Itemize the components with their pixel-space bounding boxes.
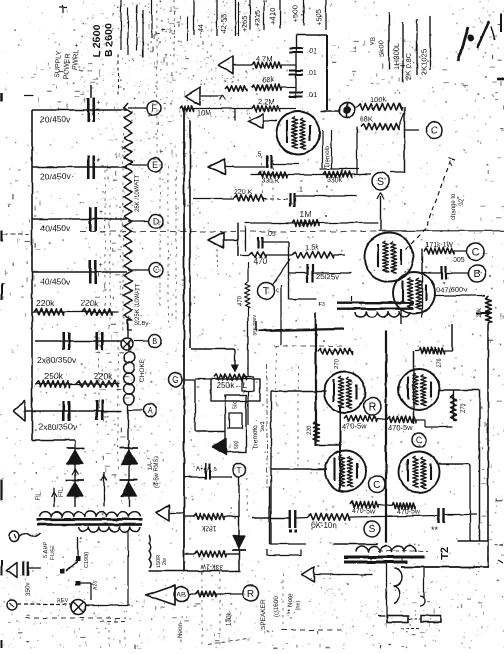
svg-text:FIL.: FIL.	[59, 486, 65, 497]
svg-text:KB: KB	[371, 37, 377, 45]
svg-text:+410: +410	[268, 8, 277, 25]
svg-text:+505: +505	[314, 9, 323, 26]
svg-text:.047/600v: .047/600v	[434, 285, 467, 294]
svg-text:FIL.: FIL.	[36, 490, 42, 501]
svg-text:c: c	[276, 288, 279, 294]
svg-text:40/450v: 40/450v	[40, 277, 71, 287]
svg-text:250k: 250k	[44, 371, 63, 381]
svg-text:330 K: 330 K	[261, 178, 280, 185]
svg-text:E: E	[152, 160, 158, 170]
svg-text:(4-5w RMS): (4-5w RMS)	[154, 456, 160, 488]
svg-text:220k: 220k	[80, 298, 99, 308]
svg-text:1HB00L: 1HB00L	[392, 43, 401, 70]
svg-text:500: 500	[234, 440, 240, 449]
svg-text:A10: A10	[93, 580, 99, 590]
svg-text:.05: .05	[266, 231, 276, 238]
svg-text:G: G	[172, 375, 179, 385]
svg-text:68K: 68K	[360, 114, 373, 123]
svg-text:C: C	[373, 479, 381, 491]
svg-text:6K-10n: 6K-10n	[311, 521, 337, 530]
svg-text:2K1025: 2K1025	[419, 49, 428, 75]
svg-text:42-55: 42-55	[219, 14, 228, 33]
svg-text:SPEAKER: SPEAKER	[260, 599, 267, 630]
svg-text:see prev: see prev	[252, 315, 258, 336]
svg-text:68k: 68k	[262, 75, 274, 84]
svg-text:Tremolo: Tremolo	[252, 425, 259, 449]
svg-text:470-5w: 470-5w	[342, 422, 367, 431]
svg-text:FUSE: FUSE	[50, 545, 56, 560]
svg-text:.005: .005	[451, 257, 465, 264]
svg-text:(c)1600: (c)1600	[274, 596, 280, 617]
svg-text:10M: 10M	[197, 110, 211, 117]
svg-text:470: 470	[238, 295, 244, 306]
svg-text:182k: 182k	[201, 524, 217, 531]
svg-text:.01: .01	[307, 92, 317, 99]
svg-text:270: 270	[461, 402, 467, 413]
svg-text:220k: 220k	[36, 298, 55, 308]
svg-text:A: A	[147, 406, 153, 415]
svg-text:Tremolo: Tremolo	[325, 146, 331, 168]
svg-text:+265: +265	[240, 15, 249, 32]
svg-text:D: D	[153, 216, 159, 226]
svg-text:1M: 1M	[300, 210, 311, 219]
svg-text:5w3: 5w3	[260, 422, 266, 432]
svg-text:130k-: 130k-	[227, 611, 233, 626]
svg-text:**: **	[431, 525, 439, 535]
svg-text:T: T	[263, 286, 270, 298]
svg-text:330k: 330k	[327, 177, 343, 184]
svg-text:.5: .5	[256, 151, 262, 158]
svg-text:25K /10WATT: 25K /10WATT	[135, 175, 141, 212]
svg-text:2w: 2w	[162, 558, 168, 565]
svg-text:REV: REV	[57, 598, 69, 604]
svg-text:B: B	[473, 268, 480, 280]
svg-text:2K 0.8C: 2K 0.8C	[404, 52, 413, 80]
svg-text:270: 270	[437, 357, 443, 368]
svg-text:350v: 350v	[26, 583, 32, 596]
svg-text:R: R	[369, 401, 377, 413]
svg-text:470-5w: 470-5w	[352, 508, 376, 515]
svg-text:2x80/350v: 2x80/350v	[37, 355, 77, 365]
svg-text:500: 500	[233, 400, 239, 409]
svg-text:change to: change to	[451, 193, 457, 220]
svg-text:.02: .02	[459, 198, 465, 207]
svg-text:470-5w: 470-5w	[388, 423, 413, 432]
svg-text:.01: .01	[307, 70, 317, 77]
svg-text:+: +	[97, 100, 101, 107]
svg-text:-44: -44	[196, 24, 205, 35]
svg-text:F: F	[151, 103, 156, 113]
svg-text:470: 470	[253, 256, 267, 266]
svg-text:T2: T2	[439, 547, 451, 560]
svg-text:R: R	[247, 589, 254, 600]
svg-text:C1900: C1900	[84, 552, 90, 568]
svg-text:(ne): (ne)	[295, 600, 301, 610]
svg-text:220: 220	[307, 424, 313, 435]
svg-text:250k←L: 250k←L	[217, 381, 247, 390]
svg-text:C: C	[153, 265, 159, 275]
svg-text:100k: 100k	[370, 95, 387, 104]
svg-text:B: B	[152, 337, 157, 346]
svg-text:220k: 220k	[94, 371, 113, 381]
svg-text:1.5k: 1.5k	[305, 243, 319, 252]
svg-text:20/450v: 20/450v	[40, 172, 71, 182]
svg-text:A+4/1.5: A+4/1.5	[196, 467, 218, 473]
svg-text:25K /10WATT: 25K /10WATT	[135, 283, 141, 320]
svg-text:Neon-: Neon-	[178, 622, 184, 638]
svg-text:L 2600: L 2600	[91, 24, 103, 57]
svg-text:5k00: 5k00	[377, 41, 386, 57]
svg-text:B 2600: B 2600	[103, 23, 115, 57]
svg-text:S: S	[377, 176, 384, 188]
svg-text:20/450v: 20/450v	[40, 115, 71, 125]
svg-text:.01: .01	[307, 48, 317, 55]
svg-text:St.By-: St.By-	[134, 321, 150, 327]
svg-text:+315: +315	[253, 10, 262, 27]
svg-text:270: 270	[334, 358, 340, 369]
svg-text:C: C	[416, 435, 422, 445]
svg-text:470-5w: 470-5w	[397, 509, 421, 516]
svg-text:2x80/350v: 2x80/350v	[38, 422, 78, 432]
svg-text:2.2M: 2.2M	[258, 97, 275, 106]
svg-text:+: +	[99, 209, 103, 216]
svg-text:40/450v: 40/450v	[40, 224, 71, 234]
svg-text:T: T	[237, 466, 242, 475]
svg-text:C: C	[431, 126, 438, 137]
svg-text:** Note: ** Note	[287, 593, 294, 614]
svg-text:CHOKE: CHOKE	[139, 358, 146, 382]
svg-text:C: C	[472, 246, 480, 258]
svg-text:4.7M: 4.7M	[256, 54, 273, 63]
svg-text:33k-1w: 33k-1w	[200, 563, 224, 570]
svg-text:+: +	[99, 262, 103, 269]
svg-text:AB: AB	[177, 592, 187, 599]
svg-text:S: S	[369, 525, 376, 536]
svg-text:20k: 20k	[477, 306, 483, 317]
svg-text:5 AMP: 5 AMP	[43, 541, 49, 558]
svg-text:F3: F3	[319, 302, 325, 308]
svg-text:+500: +500	[291, 5, 300, 22]
svg-text:+: +	[97, 157, 101, 164]
svg-text:.1: .1	[297, 187, 303, 194]
